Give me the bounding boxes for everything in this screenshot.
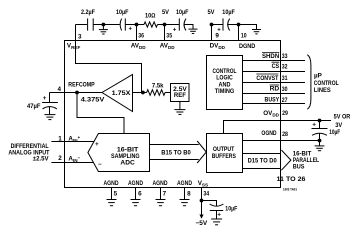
wire AGND pin8 stub xyxy=(184,188,186,200)
output buffers U1b block xyxy=(207,134,243,173)
svg-text:AVDD: AVDD xyxy=(131,43,147,50)
svg-text:−: − xyxy=(98,162,102,168)
svg-text:6: 6 xyxy=(138,191,142,198)
wire pin3 drop xyxy=(75,25,77,41)
svg-text:+: + xyxy=(312,123,316,129)
svg-text:AGND: AGND xyxy=(177,180,192,187)
control logic and timing block xyxy=(207,56,243,110)
wire CS xyxy=(243,71,306,73)
capacitor C5 47uF xyxy=(49,93,51,103)
svg-text:35: 35 xyxy=(166,33,172,40)
overbar CS xyxy=(272,61,280,63)
capacitor C2 10uF xyxy=(120,19,122,31)
capacitor C3 10uF xyxy=(178,18,180,30)
brace uP control lines xyxy=(307,55,311,109)
node junction gnd-node xyxy=(102,23,106,27)
wire C3 to ground xyxy=(184,25,193,29)
svg-text:32: 32 xyxy=(282,64,288,71)
wire pin9 drop xyxy=(211,25,213,41)
wire amp out to node xyxy=(133,92,147,94)
ground G10 xyxy=(180,199,190,201)
svg-text:5: 5 xyxy=(114,191,118,198)
ground G8 xyxy=(131,199,141,201)
svg-text:33: 33 xyxy=(282,53,288,60)
svg-text:2.2µF: 2.2µF xyxy=(81,9,95,16)
svg-text:1.75X: 1.75X xyxy=(112,90,132,97)
node junction pin36 xyxy=(135,23,139,27)
node junction pin9 5V xyxy=(210,23,214,27)
svg-text:10µF: 10µF xyxy=(176,9,189,16)
svg-text:µP: µP xyxy=(314,73,322,80)
wire AGND pin5 stub xyxy=(111,188,113,200)
wire OVDD net xyxy=(224,121,332,134)
wire VREF internal trace xyxy=(76,41,142,93)
svg-text:28: 28 xyxy=(282,131,288,138)
svg-text:REFCOMP: REFCOMP xyxy=(68,81,94,88)
svg-text:9: 9 xyxy=(215,33,219,40)
wire C4 to pin10 node and ground xyxy=(227,25,256,30)
svg-text:AGND: AGND xyxy=(153,180,168,187)
svg-text:+: + xyxy=(43,96,47,102)
svg-text:B15 TO B0: B15 TO B0 xyxy=(161,149,191,156)
node junction OGND xyxy=(318,139,322,143)
svg-text:5V: 5V xyxy=(208,9,216,16)
svg-text:5V OR: 5V OR xyxy=(334,114,351,121)
node junction pin10 xyxy=(237,23,241,27)
svg-text:BUFFERS: BUFFERS xyxy=(212,153,236,160)
resistor R1 10ohm xyxy=(144,22,158,27)
wire RD xyxy=(243,93,306,95)
svg-text:10µF: 10µF xyxy=(225,206,237,213)
capacitor C4 10uF xyxy=(222,18,224,30)
capacitor C6 10uF xyxy=(319,121,321,129)
svg-text:+: + xyxy=(217,212,221,218)
svg-text:±2.5V: ±2.5V xyxy=(33,156,50,163)
svg-text:1603 TA01: 1603 TA01 xyxy=(283,188,297,192)
ground G4 xyxy=(174,109,185,111)
svg-text:30: 30 xyxy=(282,86,288,93)
svg-text:3V: 3V xyxy=(335,122,343,129)
svg-text:47µF: 47µF xyxy=(27,103,41,110)
capacitor C7 10uF xyxy=(210,204,224,206)
svg-text:10: 10 xyxy=(241,33,247,40)
svg-text:10Ω: 10Ω xyxy=(145,12,156,19)
chip outline U1 LTC1603 xyxy=(65,41,281,188)
wire R1 to 5V node xyxy=(158,24,180,26)
svg-text:CONVST: CONVST xyxy=(256,75,278,82)
svg-text:AVDD: AVDD xyxy=(160,43,176,50)
wire AIN- xyxy=(51,162,93,164)
op-amp A1 1.75X buffer xyxy=(102,75,133,112)
svg-text:REF: REF xyxy=(174,92,186,99)
ground G2 xyxy=(189,28,198,30)
wire AIN+ xyxy=(51,141,94,143)
svg-text:5V: 5V xyxy=(162,9,170,16)
bus B15-B0 arrow xyxy=(150,144,199,146)
svg-text:31: 31 xyxy=(282,75,288,82)
wire apex to REFCOMP xyxy=(65,92,103,94)
svg-text:RD: RD xyxy=(270,86,280,93)
svg-text:−5V: −5V xyxy=(196,220,209,227)
wire CONVST xyxy=(243,82,306,84)
arrow -5V xyxy=(199,215,203,219)
svg-text:27: 27 xyxy=(282,97,288,104)
svg-text:DGND: DGND xyxy=(239,43,256,50)
svg-text:AGND: AGND xyxy=(104,180,119,187)
node junction VSS xyxy=(200,199,204,203)
svg-text:7.5k: 7.5k xyxy=(152,83,164,90)
svg-text:+: + xyxy=(129,27,133,33)
wire R2 to REF block xyxy=(165,92,170,94)
wire top analog supply rail xyxy=(76,24,87,26)
ground G3 xyxy=(252,29,261,31)
svg-text:DVDD: DVDD xyxy=(210,43,226,50)
svg-text:ADC: ADC xyxy=(120,160,135,167)
wire SHDN xyxy=(243,60,306,62)
svg-text:8: 8 xyxy=(187,191,191,198)
svg-text:VREF: VREF xyxy=(67,43,81,50)
overbar SHDN xyxy=(262,51,279,53)
svg-text:AGND: AGND xyxy=(128,180,143,187)
wire VSS stub xyxy=(201,188,203,216)
wire REF block to ground xyxy=(179,102,181,110)
svg-text:10µF: 10µF xyxy=(116,9,129,16)
wire AGND pin7 stub xyxy=(160,188,162,200)
svg-text:3: 3 xyxy=(78,34,82,41)
overbar CONVST xyxy=(256,73,278,75)
node junction OVDD xyxy=(318,119,322,123)
wire AGND pin6 stub xyxy=(135,188,137,200)
svg-text:10µF: 10µF xyxy=(222,9,235,16)
overbar RD xyxy=(270,84,280,86)
svg-text:OVDD: OVDD xyxy=(263,110,279,117)
voltage reference U2 2.5V REF xyxy=(171,84,190,102)
wire C1 to ground node xyxy=(93,24,119,26)
wire pin36 drop xyxy=(136,25,138,41)
svg-text:AIN−: AIN− xyxy=(68,155,80,163)
ground G5 xyxy=(44,114,55,116)
svg-text:CS: CS xyxy=(272,63,280,70)
ground G1 xyxy=(102,25,104,30)
svg-text:11 TO 26: 11 TO 26 xyxy=(277,176,307,183)
wire C2 to R1 xyxy=(125,24,144,26)
wire REFCOMP to 47uF xyxy=(50,92,65,94)
svg-text:BUS: BUS xyxy=(293,164,305,171)
node junction pin35 5V xyxy=(163,23,167,27)
node junction REFCOMP xyxy=(75,91,79,95)
ground G11 xyxy=(211,218,222,220)
resistor R2 7.5k xyxy=(147,90,166,96)
svg-text:2: 2 xyxy=(58,155,62,162)
wire pin35 drop xyxy=(164,25,166,41)
svg-text:+: + xyxy=(173,27,177,33)
svg-text:SHDN: SHDN xyxy=(262,53,280,60)
svg-text:34: 34 xyxy=(203,191,209,198)
ground G7 xyxy=(107,199,117,201)
svg-text:OUTPUT: OUTPUT xyxy=(213,146,235,153)
wire REFCOMP to ADC xyxy=(77,93,124,134)
svg-text:LINES: LINES xyxy=(314,87,331,94)
svg-text:29: 29 xyxy=(282,110,288,117)
node junction amp-in xyxy=(141,91,145,95)
svg-text:TIMING: TIMING xyxy=(215,88,235,95)
svg-text:BUSY: BUSY xyxy=(265,97,280,104)
capacitor C1 2.2uF xyxy=(87,18,89,30)
svg-text:4: 4 xyxy=(58,86,62,93)
svg-text:10µF: 10µF xyxy=(329,129,340,136)
svg-text:VSS: VSS xyxy=(198,180,208,187)
wire pin10 drop xyxy=(238,25,240,41)
ground G9 xyxy=(156,199,166,201)
svg-text:7: 7 xyxy=(163,191,167,198)
wire OGND xyxy=(243,140,320,142)
svg-text:36: 36 xyxy=(138,33,144,40)
svg-text:+: + xyxy=(95,142,99,148)
adc U1a 16-bit sampling adc pentagon xyxy=(88,134,150,172)
svg-text:1: 1 xyxy=(58,135,62,142)
svg-text:D15 TO D0: D15 TO D0 xyxy=(248,157,278,164)
ground G6 xyxy=(319,141,321,146)
wire VSS to C7 xyxy=(202,201,217,207)
overbars xyxy=(256,52,279,85)
wire BUSY xyxy=(243,103,306,105)
svg-text:OGND: OGND xyxy=(261,130,277,137)
svg-text:CONTROL: CONTROL xyxy=(314,80,339,87)
bus D15-D0 arrow xyxy=(243,153,281,155)
svg-text:4.375V: 4.375V xyxy=(81,97,106,104)
wire 5V DVDD node xyxy=(212,24,224,26)
